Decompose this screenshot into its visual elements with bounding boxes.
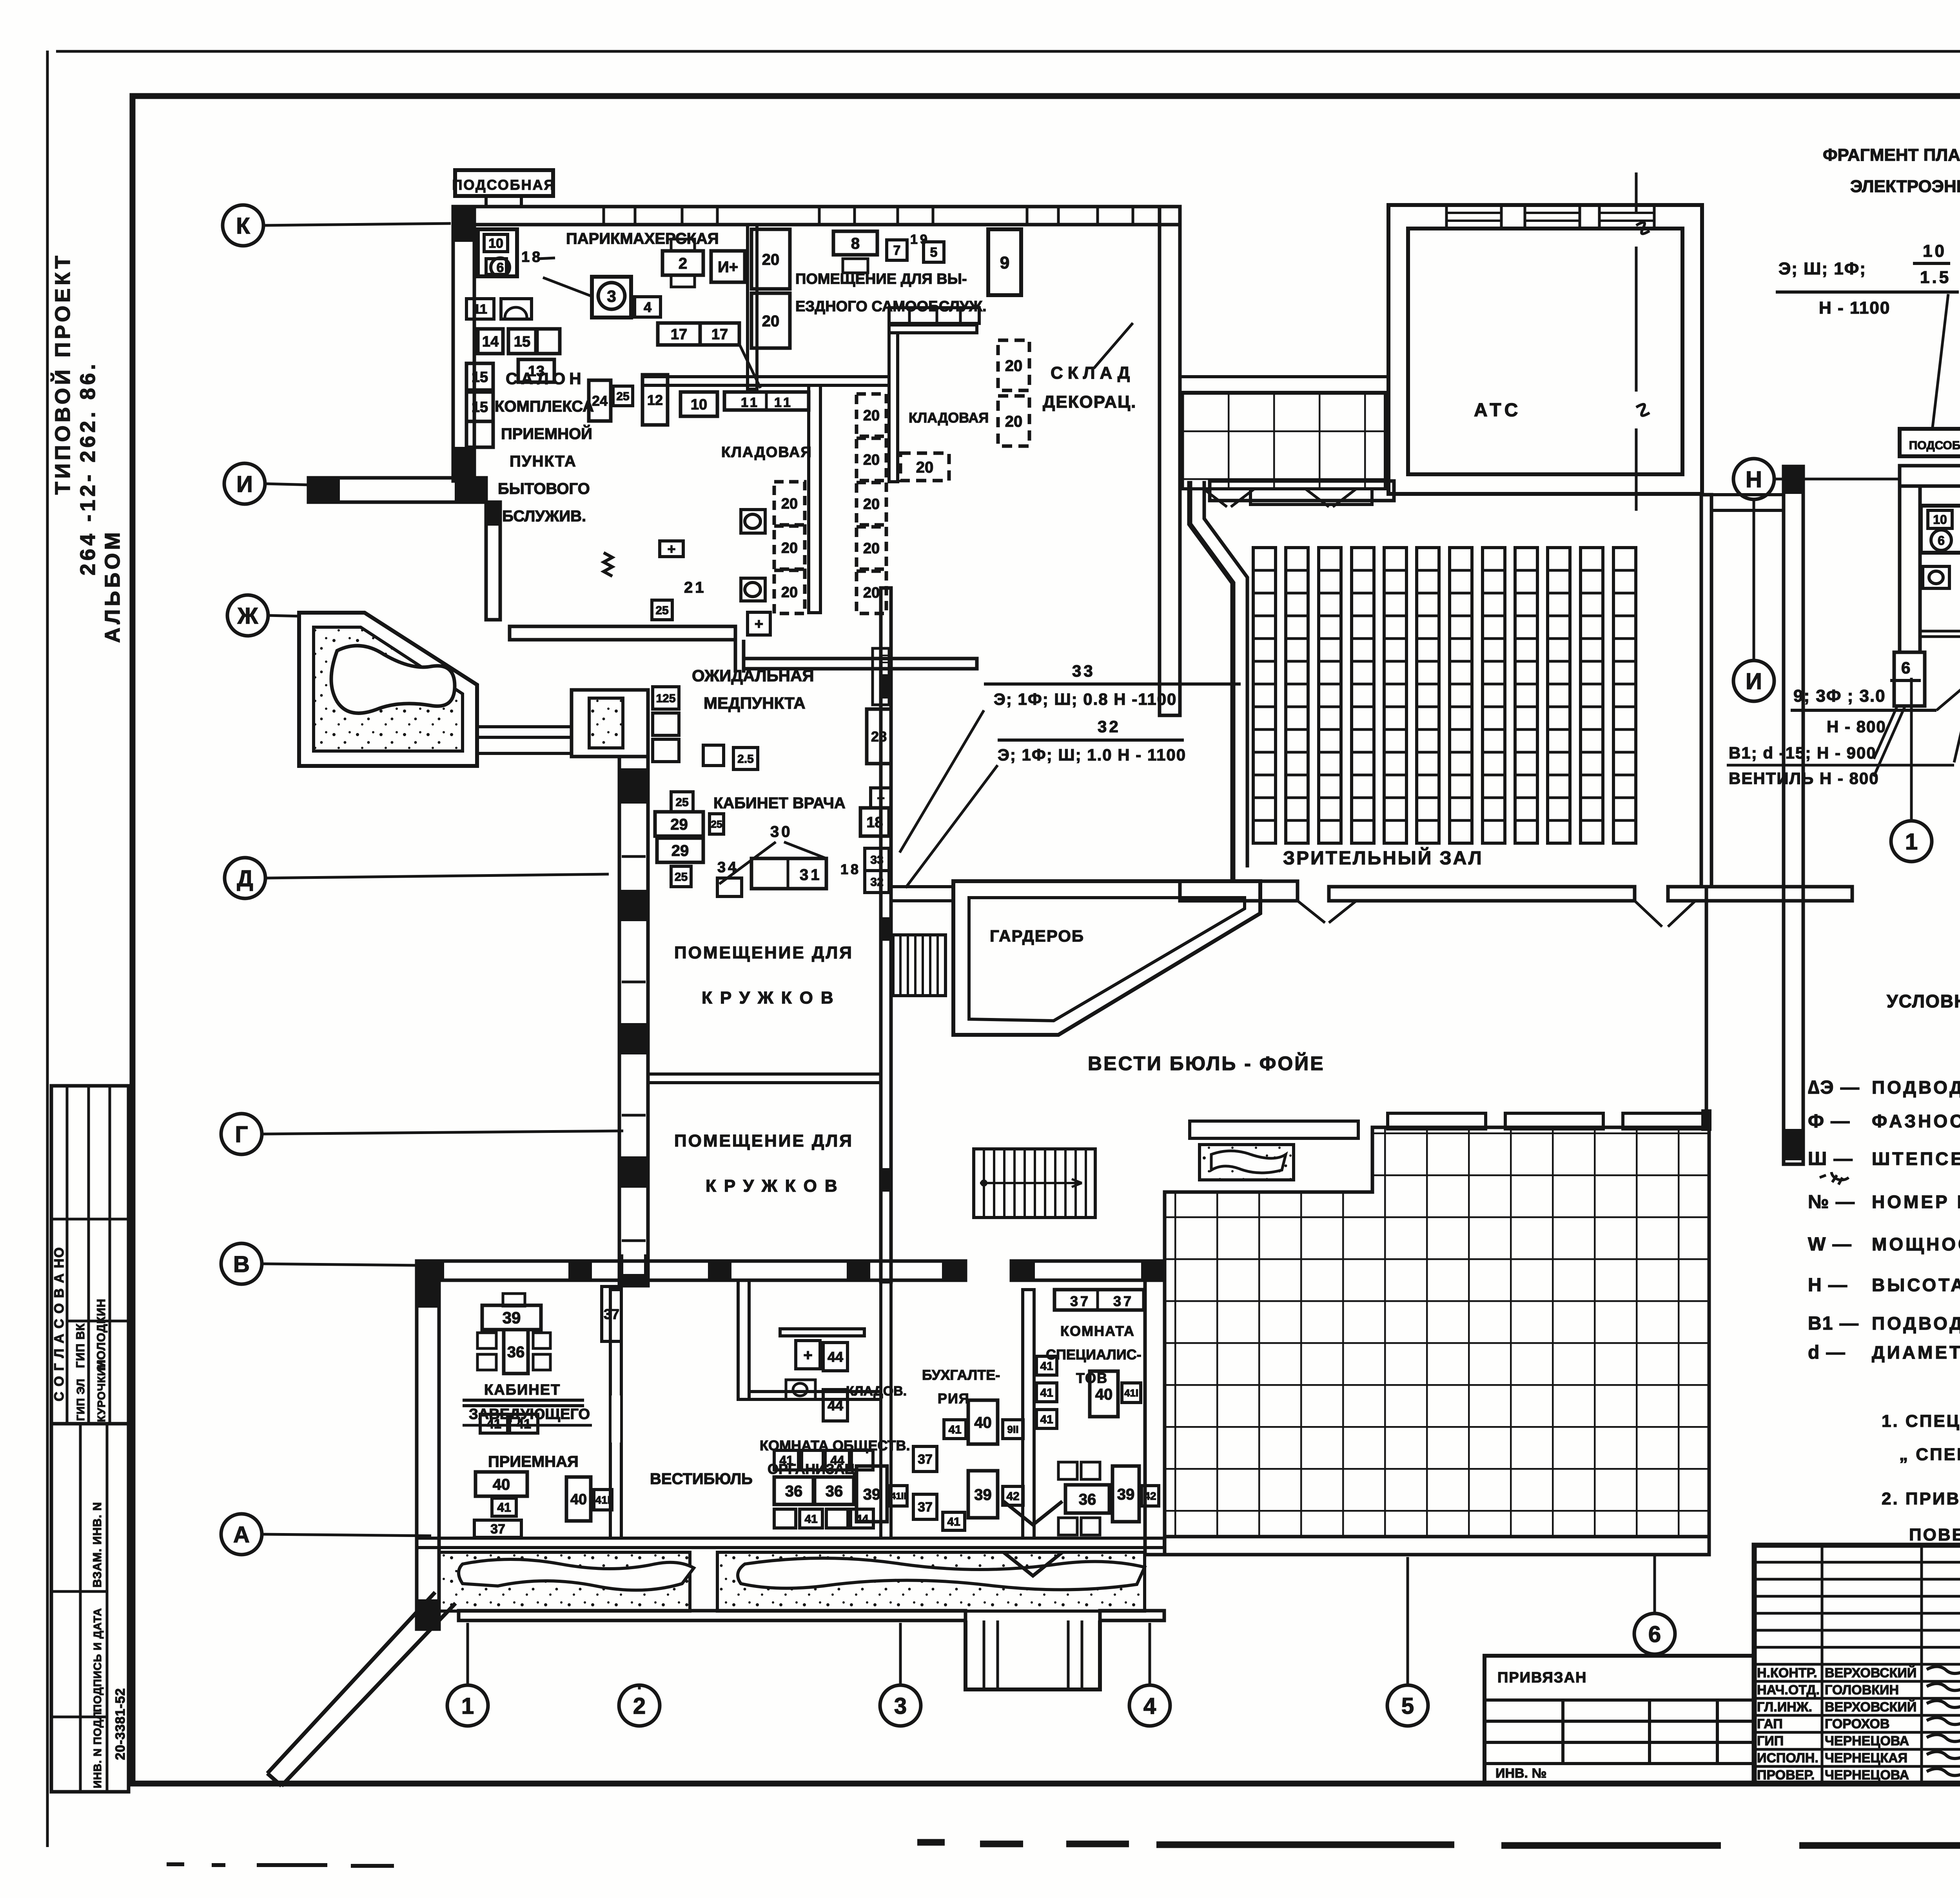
svg-text:∆Э —: ∆Э — — [1808, 1077, 1860, 1098]
svg-text:ПОМЕЩЕНИЕ ДЛЯ ВЫ-: ПОМЕЩЕНИЕ ДЛЯ ВЫ- — [795, 271, 967, 287]
svg-text:Э; 1Ф; Ш; 0.8 Н -1100: Э; 1Ф; Ш; 0.8 Н -1100 — [994, 690, 1177, 708]
furniture accounting — [913, 1446, 937, 1472]
svg-text:ГИП ЭЛ: ГИП ЭЛ — [74, 1379, 87, 1421]
svg-text:Ф —: Ф — — [1808, 1111, 1850, 1132]
svg-text:5: 5 — [1401, 1693, 1414, 1719]
svg-text:264 -12- 262. 86.: 264 -12- 262. 86. — [76, 361, 100, 575]
svg-text:20: 20 — [916, 459, 934, 476]
svg-text:41: 41 — [779, 1453, 793, 1468]
seat rows — [1253, 548, 1276, 843]
corridor wall below auditorium — [1180, 881, 1298, 901]
svg-text:РИЯ: РИЯ — [938, 1390, 970, 1406]
terrace top wall windows — [1190, 1121, 1358, 1138]
porch speckled strip left — [439, 1552, 690, 1611]
svg-text:ЧЕРНЕЦКАЯ: ЧЕРНЕЦКАЯ — [1825, 1751, 1907, 1766]
leader ticks wing — [543, 278, 592, 296]
svg-text:ДЕКОРАЦ.: ДЕКОРАЦ. — [1043, 392, 1136, 412]
svg-text:СКЛАД: СКЛАД — [1051, 363, 1134, 383]
spine wall center — [881, 588, 891, 1282]
svg-text:41: 41 — [1040, 1386, 1053, 1399]
upper landing small speckle box — [1200, 1145, 1294, 1180]
svg-text:Э; Ш; 1Ф;: Э; Ш; 1Ф; — [1779, 259, 1866, 278]
svg-text:АЛЬБОМ: АЛЬБОМ — [101, 529, 124, 643]
svg-text:17: 17 — [711, 327, 728, 343]
svg-text:41: 41 — [497, 1501, 511, 1515]
svg-text:ПРИЕМНОЙ: ПРИЕМНОЙ — [501, 425, 592, 443]
svg-text:КЛАДОВАЯ: КЛАДОВАЯ — [909, 410, 989, 426]
svg-text:ОБСЛУЖИВ.: ОБСЛУЖИВ. — [490, 508, 586, 525]
svg-text:20: 20 — [1005, 357, 1023, 374]
svg-text:ИСПОЛН.: ИСПОЛН. — [1757, 1751, 1818, 1766]
svg-text:40: 40 — [570, 1492, 587, 1508]
svg-text:41: 41 — [1040, 1413, 1053, 1426]
partition парикмахерская right — [748, 225, 757, 389]
АТС room walls — [1388, 205, 1702, 494]
svg-text:КЛАДОВ.: КЛАДОВ. — [846, 1384, 907, 1399]
clubs wing left wall — [619, 757, 648, 1286]
svg-text:15: 15 — [472, 399, 488, 416]
svg-text:25: 25 — [711, 818, 722, 830]
svg-text:Ж: Ж — [237, 603, 258, 629]
svg-text:КАБИНЕТ: КАБИНЕТ — [484, 1382, 561, 1398]
svg-text:5: 5 — [930, 245, 938, 260]
svg-text:20: 20 — [762, 312, 780, 330]
svg-text:ПОМЕЩЕНИЕ ДЛЯ: ПОМЕЩЕНИЕ ДЛЯ — [674, 943, 853, 962]
svg-text:2: 2 — [633, 1693, 646, 1719]
svg-text:СПЕЦИАЛИС-: СПЕЦИАЛИС- — [1046, 1346, 1142, 1363]
svg-text:20: 20 — [863, 496, 880, 513]
svg-text:ПРОВЕР.: ПРОВЕР. — [1757, 1767, 1815, 1782]
svg-text:29: 29 — [671, 842, 689, 859]
svg-text:Г: Г — [235, 1122, 248, 1147]
svg-text:30: 30 — [770, 823, 793, 840]
sanitary fixtures wing — [741, 510, 765, 533]
svg-text:20: 20 — [1005, 413, 1023, 430]
svg-text:2.5: 2.5 — [737, 753, 754, 766]
svg-text:15: 15 — [514, 334, 530, 350]
svg-text:1: 1 — [461, 1693, 474, 1719]
svg-text:25: 25 — [655, 604, 668, 617]
svg-text:6: 6 — [1648, 1622, 1661, 1647]
svg-text:37: 37 — [1070, 1293, 1091, 1309]
porch speckled strip right — [717, 1552, 1145, 1611]
svg-text:С О Г Л А С О В А НО: С О Г Л А С О В А НО — [52, 1247, 67, 1401]
svg-text:ГОРОХОВ: ГОРОХОВ — [1825, 1717, 1889, 1731]
svg-text:КУРОЧКИН: КУРОЧКИН — [95, 1359, 107, 1422]
wing bottom walls — [510, 626, 735, 640]
svg-text:ИНВ. №: ИНВ. № — [1495, 1766, 1546, 1781]
svg-text:32: 32 — [1098, 717, 1121, 736]
bottom wing furniture : cabinet area — [482, 1305, 541, 1330]
svg-text:УСЛОВНЫЕ ОБОЗНАЧЕНИЯ: УСЛОВНЫЕ ОБОЗНАЧЕНИЯ — [1887, 991, 1960, 1011]
svg-text:39: 39 — [503, 1308, 521, 1327]
svg-text:10: 10 — [1933, 513, 1947, 527]
svg-text:ПОМЕЩЕНИЕ ДЛЯ: ПОМЕЩЕНИЕ ДЛЯ — [674, 1131, 853, 1150]
svg-text:11: 11 — [741, 395, 760, 410]
svg-text:32: 32 — [870, 876, 883, 889]
svg-text:КОМПЛЕКСА: КОМПЛЕКСА — [495, 398, 594, 415]
furniture obshestv rooms — [796, 1341, 820, 1369]
bottom wing top wall — [417, 1261, 965, 1280]
svg-text:6: 6 — [1938, 533, 1945, 548]
svg-text:41II: 41II — [891, 1491, 906, 1502]
partition kladovaya top — [642, 377, 889, 385]
porch door swings — [1203, 489, 1356, 507]
svg-text:41: 41 — [948, 1423, 961, 1436]
corridor to planter — [477, 725, 572, 728]
склад right wall — [1160, 207, 1180, 715]
axis 4 — [1129, 1685, 1170, 1726]
svg-text:d —: d — — [1808, 1342, 1846, 1363]
svg-text:15: 15 — [472, 369, 488, 386]
axis 6 — [1634, 1613, 1675, 1654]
svg-text:11: 11 — [774, 395, 793, 410]
axis 5 — [1387, 1685, 1428, 1726]
svg-text:39: 39 — [863, 1486, 881, 1503]
axis И — [224, 463, 265, 504]
svg-text:18: 18 — [840, 861, 861, 877]
svg-text:1: 1 — [1905, 829, 1918, 855]
solid wall column blocks — [453, 207, 474, 242]
svg-text:33: 33 — [870, 853, 883, 866]
svg-text:МОЩНОСТЬ ТОКОПРИЕМНИКА В: МОЩНОСТЬ ТОКОПРИЕМНИКА В КВТ; — [1872, 1234, 1960, 1254]
plan break line right — [1636, 172, 1650, 511]
svg-text:В1 —: В1 — — [1808, 1313, 1859, 1334]
svg-text:28: 28 — [871, 728, 887, 744]
svg-text:КРУЖКОВ: КРУЖКОВ — [702, 988, 841, 1007]
bottom page-edge shadow dashes — [167, 1864, 394, 1866]
svg-text:ПУНКТА: ПУНКТА — [510, 453, 577, 470]
bottom wing outer wall — [459, 1611, 965, 1620]
svg-text:ОЖИДАЛЬНАЯ: ОЖИДАЛЬНАЯ — [692, 666, 814, 685]
svg-text:БУХГАЛТЕ-: БУХГАЛТЕ- — [922, 1367, 1000, 1383]
svg-text:ГАП: ГАП — [1757, 1717, 1783, 1731]
porch top lines — [1180, 377, 1388, 392]
svg-text:19: 19 — [910, 232, 930, 247]
axis В — [221, 1243, 262, 1284]
svg-text:Н.КОНТР.: Н.КОНТР. — [1757, 1666, 1817, 1680]
left wall of wing — [453, 207, 474, 481]
svg-text:1. СПЕЦИФИКАЦИЯ ОБОРУДОВАНИЯ: 1. СПЕЦИФИКАЦИЯ ОБОРУДОВАНИЯ ПРИВЕДЕНА В… — [1882, 1412, 1960, 1431]
svg-text:Н —: Н — — [1808, 1275, 1848, 1296]
Ж planter — [299, 613, 477, 766]
axis 3 — [880, 1685, 921, 1726]
АТС windows top — [1446, 205, 1501, 229]
vestibule right wall — [1784, 466, 1803, 1164]
svg-text:ПОДПИСЬ И ДАТА: ПОДПИСЬ И ДАТА — [91, 1608, 103, 1712]
fragment equipment left — [1921, 506, 1960, 553]
axis К — [223, 205, 263, 246]
clubs partition — [648, 1074, 881, 1083]
svg-text:41: 41 — [516, 1417, 531, 1432]
svg-text:ПОДСОБНАЯ: ПОДСОБНАЯ — [1909, 439, 1960, 452]
svg-text:И+: И+ — [718, 258, 738, 276]
title block main outline — [1754, 1545, 1960, 1784]
svg-text:13: 13 — [528, 363, 544, 380]
И-axis wall protrusion — [309, 478, 486, 502]
svg-text:„ СПЕЦИФИКАЦИИ ОБОРУДОВА: „ СПЕЦИФИКАЦИИ ОБОРУДОВАНИЯ.” — [1899, 1445, 1960, 1464]
svg-text:ДИАМЕТР ТРУБОПРОВОДА В ММ: ДИАМЕТР ТРУБОПРОВОДА В ММ — [1872, 1342, 1960, 1363]
svg-text:ВЕРХОВСКИЙ: ВЕРХОВСКИЙ — [1825, 1699, 1916, 1715]
svg-text:29: 29 — [670, 816, 688, 833]
svg-text:36: 36 — [1079, 1491, 1096, 1508]
svg-text:20: 20 — [863, 541, 880, 557]
svg-text:ГИП: ГИП — [1757, 1734, 1784, 1749]
svg-text:9: 9 — [1000, 253, 1009, 272]
svg-text:20: 20 — [863, 452, 880, 468]
svg-text:ШТЕПСЕЛЬНАЯ РОЗЕТКА,: ШТЕПСЕЛЬНАЯ РОЗЕТКА, — [1872, 1149, 1960, 1169]
bottom wing partitions — [610, 1290, 621, 1538]
svg-text:В: В — [233, 1252, 250, 1277]
fragment walls — [1900, 466, 1960, 486]
svg-text:ВЕСТИБЮЛЬ: ВЕСТИБЮЛЬ — [650, 1470, 753, 1488]
svg-text:Д: Д — [237, 866, 253, 891]
bottom wing left wall — [417, 1280, 439, 1629]
fragment axis Н — [1733, 459, 1774, 499]
svg-text:42: 42 — [1006, 1490, 1019, 1503]
svg-text:ВЗАМ. ИНВ. N: ВЗАМ. ИНВ. N — [91, 1502, 104, 1588]
svg-text:ВЫСОТА ПОДВОДА В ММ,: ВЫСОТА ПОДВОДА В ММ, — [1872, 1275, 1960, 1295]
svg-text:25: 25 — [616, 390, 629, 403]
svg-text:Н: Н — [1746, 467, 1762, 492]
svg-text:Н - 1100: Н - 1100 — [1819, 298, 1890, 318]
svg-text:1.5: 1.5 — [1920, 268, 1951, 287]
svg-text:ФРАГМЕНТ ПЛАНА С ПРИВЯЗКОЙ: ФРАГМЕНТ ПЛАНА С ПРИВЯЗКОЙ ПОДВОДОВ , ВО… — [1823, 145, 1960, 165]
porch tiles — [1181, 393, 1385, 489]
corridor wall left of cloakroom — [891, 887, 953, 901]
svg-text:125: 125 — [656, 692, 675, 705]
svg-text:37: 37 — [1113, 1293, 1134, 1309]
svg-text:ВЕСТИ БЮЛЬ - ФОЙЕ: ВЕСТИ БЮЛЬ - ФОЙЕ — [1088, 1052, 1325, 1074]
svg-text:20: 20 — [781, 540, 798, 557]
svg-text:АТС: АТС — [1474, 400, 1521, 421]
svg-text:6: 6 — [497, 260, 504, 275]
svg-text:25: 25 — [675, 796, 688, 809]
svg-text:40: 40 — [1095, 1386, 1113, 1403]
svg-text:41I: 41I — [595, 1494, 611, 1506]
svg-text:34: 34 — [717, 859, 739, 876]
wall below И — [486, 502, 500, 620]
stair B — [974, 1149, 1095, 1218]
svg-text:41: 41 — [1040, 1360, 1053, 1373]
svg-text:КАБИНЕТ ВРАЧА: КАБИНЕТ ВРАЧА — [713, 795, 846, 812]
svg-text:44: 44 — [855, 1513, 869, 1526]
axis 1 — [447, 1685, 488, 1726]
svg-text:МЕДПУНКТА: МЕДПУНКТА — [704, 694, 806, 712]
svg-text:39: 39 — [1117, 1486, 1135, 1503]
furniture boxes top-left wing — [478, 229, 517, 276]
svg-text:44: 44 — [830, 1453, 844, 1468]
svg-text:ПОВЕРХНОСТЕЙ СТЕН И ПЕР: ПОВЕРХНОСТЕЙ СТЕН И ПЕРЕГОРОДОК. — [1909, 1524, 1960, 1544]
svg-text:18: 18 — [866, 815, 883, 831]
svg-text:7: 7 — [893, 243, 901, 258]
svg-text:ЗРИТЕЛЬНЫЙ ЗАЛ: ЗРИТЕЛЬНЫЙ ЗАЛ — [1283, 847, 1483, 869]
svg-text:37: 37 — [490, 1522, 505, 1537]
svg-text:+: + — [755, 616, 763, 633]
svg-text:6: 6 — [1901, 659, 1913, 677]
svg-text:40: 40 — [493, 1476, 510, 1493]
left stamp column tables — [51, 1086, 129, 1792]
svg-text:№ —: № — — [1808, 1192, 1855, 1212]
diagonal ramp bottom-left — [267, 1592, 456, 1786]
fragment interior walls — [1920, 631, 1960, 637]
svg-text:14: 14 — [482, 334, 499, 350]
svg-text:НОМЕР ПОЗИЦИИ ПО СПЕЦИФИКА: НОМЕР ПОЗИЦИИ ПО СПЕЦИФИКАЦИИ , — [1872, 1192, 1960, 1212]
svg-text:2: 2 — [679, 255, 687, 272]
svg-text:20: 20 — [863, 408, 880, 424]
entrance steps cut — [965, 1620, 1100, 1689]
bottom wing right wall — [1145, 1280, 1165, 1555]
auditorium walls — [1190, 481, 1233, 881]
svg-text:ГАРДЕРОБ: ГАРДЕРОБ — [990, 927, 1084, 945]
fragment leader lines — [1933, 294, 1948, 427]
svg-text:И: И — [1746, 669, 1762, 694]
svg-text:+: + — [877, 791, 885, 806]
svg-text:4: 4 — [1143, 1693, 1156, 1719]
svg-text:31: 31 — [800, 866, 822, 884]
axis 2 — [619, 1685, 660, 1726]
svg-text:10: 10 — [691, 397, 707, 413]
svg-text:17: 17 — [671, 327, 687, 343]
svg-text:И: И — [236, 472, 253, 497]
svg-text:ГЛ.ИНЖ.: ГЛ.ИНЖ. — [1757, 1700, 1812, 1715]
svg-text:ЧЕРНЕЦОВА: ЧЕРНЕЦОВА — [1825, 1734, 1909, 1749]
svg-text:41: 41 — [804, 1513, 817, 1526]
svg-text:Э; 1Ф; Ш; 1.0 Н - 1100: Э; 1Ф; Ш; 1.0 Н - 1100 — [998, 746, 1186, 764]
svg-text:36: 36 — [507, 1343, 525, 1361]
partition right room — [889, 325, 977, 333]
svg-text:37: 37 — [918, 1500, 933, 1515]
svg-text:ГИП ВК: ГИП ВК — [74, 1323, 87, 1368]
svg-text:41: 41 — [947, 1515, 960, 1528]
svg-text:25: 25 — [675, 871, 688, 884]
axis Г — [221, 1114, 262, 1154]
svg-text:В1; d -15; Н - 900: В1; d -15; Н - 900 — [1729, 744, 1877, 762]
svg-text:36: 36 — [785, 1482, 803, 1500]
svg-text:К: К — [236, 213, 250, 239]
stair A — [893, 935, 946, 996]
svg-text:44: 44 — [828, 1397, 843, 1414]
svg-text:W —: W — — [1808, 1234, 1852, 1255]
fragment подсобная box — [1900, 429, 1960, 456]
svg-text:4: 4 — [644, 299, 652, 315]
svg-text:ИНВ. N ПОДЛ.: ИНВ. N ПОДЛ. — [91, 1708, 103, 1788]
svg-text:20-3381-52: 20-3381-52 — [113, 1688, 128, 1760]
svg-text:8: 8 — [851, 235, 860, 252]
svg-text:3: 3 — [607, 287, 616, 305]
svg-text:10: 10 — [1923, 241, 1947, 261]
fragment axis 1 — [1891, 821, 1932, 862]
medpunkt furniture — [653, 687, 679, 709]
svg-text:3: 3 — [894, 1693, 907, 1719]
cloakroom ГАРДЕРОБ — [953, 881, 1260, 1035]
svg-text:9II: 9II — [1007, 1423, 1019, 1435]
axis А — [221, 1514, 262, 1555]
svg-text:ПРИВЯЗАН: ПРИВЯЗАН — [1497, 1669, 1587, 1686]
svg-text:20: 20 — [781, 496, 798, 512]
svg-text:Н - 800: Н - 800 — [1827, 717, 1886, 736]
svg-text:39: 39 — [974, 1486, 992, 1503]
bottom wing floor edge + porch — [417, 1538, 1164, 1548]
fragment axis И — [1733, 660, 1774, 701]
svg-text:18: 18 — [521, 249, 543, 265]
names table — [1754, 1561, 1960, 1564]
svg-text:33: 33 — [1072, 662, 1095, 680]
svg-text:20: 20 — [781, 584, 798, 601]
svg-text:ПОДВОД ЭЛЕКТРОЭНЕРГИИ ,: ПОДВОД ЭЛЕКТРОЭНЕРГИИ , — [1872, 1077, 1960, 1098]
svg-text:Ш —: Ш — — [1808, 1149, 1853, 1169]
svg-text:ВЕРХОВСКИЙ: ВЕРХОВСКИЙ — [1825, 1665, 1916, 1680]
furniture specialists — [1054, 1290, 1144, 1310]
svg-text:37: 37 — [918, 1452, 933, 1467]
svg-text:44: 44 — [828, 1349, 843, 1365]
svg-text:БЫТОВОГО: БЫТОВОГО — [498, 480, 590, 497]
svg-text:КОМНАТА: КОМНАТА — [1060, 1323, 1135, 1339]
svg-text:НАЧ.ОТД.: НАЧ.ОТД. — [1757, 1682, 1820, 1697]
svg-text:А: А — [233, 1522, 250, 1548]
svg-text:11: 11 — [473, 302, 487, 317]
svg-text:ПОДВОД ХОЛОДНОЙ ВОДЫ: ПОДВОД ХОЛОДНОЙ ВОДЫ — [1872, 1313, 1960, 1334]
hall right wall extension to terrace — [1705, 887, 1708, 1131]
room label box ПОДСОБНАЯ — [455, 170, 553, 196]
svg-text:2. ПРИВЯЗОЧНЫЕ РАЗМЕРЫ: 2. ПРИВЯЗОЧНЫЕ РАЗМЕРЫ ДАНЫ В ММ ОТ ОБРА… — [1882, 1489, 1960, 1508]
svg-text:+: + — [667, 541, 675, 557]
svg-text:ПОДСОБНАЯ: ПОДСОБНАЯ — [452, 177, 555, 193]
svg-text:40: 40 — [974, 1414, 992, 1431]
svg-text:12: 12 — [647, 392, 663, 408]
svg-text:41: 41 — [486, 1417, 501, 1432]
svg-text:ФАЗНОСТЬ ТОКА,: ФАЗНОСТЬ ТОКА, — [1872, 1111, 1960, 1131]
svg-text:21: 21 — [684, 579, 706, 596]
terrace tile grid — [1165, 1127, 1709, 1537]
svg-text:+: + — [803, 1346, 812, 1364]
svg-text:ЭЛЕКТРОЭНЕРГИИ К ОБОРУДОВ: ЭЛЕКТРОЭНЕРГИИ К ОБОРУДОВАНИЮ — [1850, 177, 1960, 196]
svg-text:ВЕНТИЛЬ Н - 800: ВЕНТИЛЬ Н - 800 — [1729, 769, 1879, 788]
axis Д — [225, 858, 265, 898]
svg-text:37: 37 — [604, 1306, 619, 1322]
svg-text:ГОЛОВКИН: ГОЛОВКИН — [1825, 1682, 1899, 1697]
svg-text:ЧЕРНЕЦОВА: ЧЕРНЕЦОВА — [1825, 1767, 1909, 1782]
svg-text:ПРИЕМНАЯ: ПРИЕМНАЯ — [488, 1453, 579, 1470]
svg-text:41I: 41I — [1124, 1387, 1138, 1399]
axis Ж — [227, 595, 268, 636]
svg-text:КРУЖКОВ: КРУЖКОВ — [706, 1176, 845, 1196]
svg-text:20: 20 — [863, 585, 880, 601]
svg-text:36: 36 — [826, 1482, 843, 1500]
привязан box — [1485, 1656, 1754, 1784]
svg-text:20: 20 — [762, 251, 780, 268]
svg-text:КЛАДОВАЯ: КЛАДОВАЯ — [721, 444, 812, 461]
svg-text:10: 10 — [488, 236, 503, 251]
svg-text:24: 24 — [592, 393, 608, 409]
svg-text:42: 42 — [1144, 1490, 1156, 1502]
svg-text:ТИПОВОЙ ПРОЕКТ: ТИПОВОЙ ПРОЕКТ — [51, 252, 74, 495]
svg-text:9; 3Ф ; 3.0: 9; 3Ф ; 3.0 — [1793, 686, 1886, 706]
top wall axis К — [453, 207, 1180, 225]
